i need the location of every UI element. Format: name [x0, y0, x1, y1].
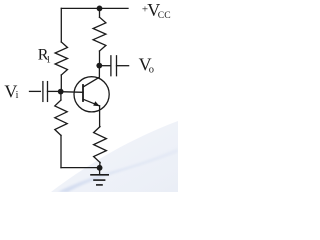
- wire left rail upper: [60, 8, 62, 42]
- wire emitter down: [99, 106, 101, 127]
- wire R1 to base node: [60, 75, 62, 92]
- wire top rail: [61, 7, 128, 9]
- wire left rail lower: [60, 135, 62, 167]
- transistor Q1 base bar: [82, 85, 84, 101]
- junction dot collector output node: [96, 63, 102, 69]
- capacitor output plate left: [110, 56, 112, 76]
- background swoosh wash: [51, 121, 178, 192]
- wire bottom rail: [61, 167, 100, 169]
- wire collector stub from top: [99, 8, 101, 17]
- wire input lead: [30, 90, 41, 92]
- resistor R1: [55, 42, 67, 75]
- wire RE to ground node: [99, 163, 101, 168]
- wire input cap to base node: [48, 90, 61, 92]
- background swoosh edge band: [58, 148, 178, 192]
- wire output cap right lead: [117, 65, 129, 67]
- junction dot top rail: [97, 5, 103, 11]
- wire base lead: [61, 91, 83, 94]
- wire RC to output node: [99, 51, 101, 66]
- junction dot emitter ground node: [97, 165, 103, 171]
- svg-text:o: o: [149, 65, 154, 76]
- svg-text:1: 1: [46, 55, 51, 65]
- ground line 1: [91, 174, 108, 176]
- ground line 3: [97, 184, 102, 186]
- ground line 2: [94, 179, 105, 181]
- resistor R2: [55, 100, 67, 135]
- wire collector down to transistor: [83, 66, 99, 87]
- resistor emitter RE: [94, 127, 107, 163]
- svg-text:CC: CC: [158, 10, 171, 21]
- junction dot base node: [58, 89, 64, 95]
- transistor Q1 circle: [74, 77, 109, 112]
- wire output node to cap: [99, 65, 110, 67]
- transistor Q1 emitter line: [83, 99, 99, 106]
- svg-text:i: i: [16, 90, 19, 101]
- ground stub: [99, 168, 101, 175]
- wire R2 top stub: [60, 92, 62, 101]
- capacitor input plate left: [42, 82, 44, 102]
- capacitor output plate right: [116, 56, 118, 76]
- resistor collector RC: [93, 17, 106, 51]
- capacitor input plate right: [47, 82, 49, 102]
- transistor Q1 emitter arrowhead: [93, 101, 100, 106]
